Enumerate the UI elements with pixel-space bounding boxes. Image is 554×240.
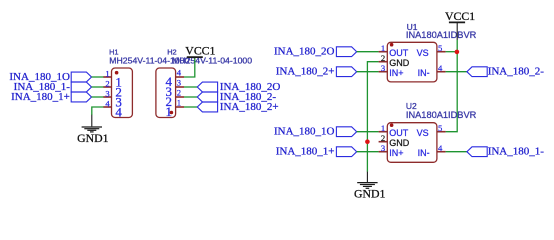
port INA_180_1+ (U2) [276,146,357,158]
ground GND1 right [354,172,386,201]
H2 pin 2 [166,88,185,109]
H2 pin 1 [166,98,185,119]
svg-text:VCC1: VCC1 [185,44,215,58]
connector H2 [156,68,176,118]
svg-text:IN-: IN- [418,148,430,158]
U1 pin 1 OUT [379,43,409,58]
svg-text:INA_180_2O: INA_180_2O [274,46,335,58]
wire [184,58,195,77]
port INA_180_1O [9,71,91,83]
svg-text:INA_180_2+: INA_180_2+ [220,101,279,113]
svg-text:4: 4 [438,143,443,153]
port INA_180_2+ (U1) [276,66,357,78]
svg-text:1: 1 [381,123,385,133]
svg-text:INA_180_2+: INA_180_2+ [276,66,335,78]
svg-text:VS: VS [417,128,429,138]
svg-text:4: 4 [438,63,443,73]
wire [357,151,379,153]
H1 pin 4 [103,98,122,119]
port INA_180_2+ (H2) [197,101,278,113]
U2 pin 1 OUT [379,123,409,138]
H2 pin 3 [166,78,185,99]
svg-text:OUT: OUT [389,128,409,138]
svg-text:1: 1 [177,98,181,108]
svg-text:1: 1 [381,43,385,53]
wire [357,131,379,133]
wire [446,71,467,73]
svg-text:VCC1: VCC1 [445,9,475,23]
svg-text:5: 5 [438,123,442,133]
H2 pin-1 marker dot [170,111,174,115]
svg-text:2: 2 [177,88,181,98]
U1 pin 3 IN+ [379,63,404,78]
svg-text:GND1: GND1 [354,187,386,201]
svg-text:3: 3 [105,88,109,98]
svg-text:2: 2 [105,78,109,88]
H1 pin 2 [103,78,122,99]
svg-text:1: 1 [166,104,173,119]
svg-text:INA180A1IDBVR: INA180A1IDBVR [406,110,477,120]
svg-text:3: 3 [381,63,385,73]
svg-text:1: 1 [105,68,109,78]
svg-text:IN+: IN+ [389,68,403,78]
wire VCC vertical [446,40,458,132]
wire [92,86,104,88]
port INA_180_1- [14,81,92,93]
ground GND1 left [77,115,109,145]
svg-text:INA_180_2-: INA_180_2- [488,66,545,78]
svg-text:5: 5 [438,43,442,53]
svg-text:INA_180_1+: INA_180_1+ [11,91,70,103]
wire [446,151,467,153]
op-amp U1 INA180A1IDBVR [387,42,437,82]
svg-text:GND: GND [389,138,410,148]
port INA_180_1- (U2 right) [467,146,544,158]
svg-text:INA_180_1-: INA_180_1- [488,146,545,158]
wire VS to junction [446,51,458,53]
U1 pin-1 marker dot [390,43,394,47]
U1 pin 5 VS [417,43,446,58]
wire [357,51,379,53]
svg-text:OUT: OUT [389,48,409,58]
connector H1 [112,68,133,118]
power VCC1 (H2) [185,44,215,59]
U2 pin 2 GND [379,133,410,148]
H1 pin 1 [103,68,122,89]
wire [92,96,104,98]
svg-text:4: 4 [177,68,182,78]
wire [92,76,104,78]
wire [184,96,198,98]
wire [92,107,104,115]
port INA_180_2O (U1) [274,46,357,58]
wire [184,106,198,108]
svg-text:2: 2 [381,133,385,143]
svg-text:3: 3 [177,78,181,88]
junction at VS/VCC [455,50,460,55]
U2 pin 3 IN+ [379,143,404,158]
svg-text:IN-: IN- [418,68,430,78]
port INA_180_2O (H2) [197,81,280,93]
power VCC1 (top) [445,9,475,40]
H1 pin 3 [103,88,122,109]
U2 pin-1 marker dot [390,123,394,127]
H2 pin 4 [166,68,185,89]
svg-text:4: 4 [105,98,110,108]
U2 pin 4 IN- [418,143,446,158]
wire GND net vertical [367,62,378,172]
svg-text:VS: VS [417,48,429,58]
U1 pin 2 GND [379,53,410,68]
svg-text:2: 2 [381,53,385,63]
svg-text:INA_180_1+: INA_180_1+ [276,146,335,158]
wire [184,86,198,88]
U1 pin 4 IN- [418,63,446,78]
port INA_180_2- (U1 right) [467,66,544,78]
port INA_180_1O (U2) [274,126,357,138]
svg-text:GND1: GND1 [77,131,109,145]
svg-text:3: 3 [381,143,385,153]
svg-text:IN+: IN+ [389,148,403,158]
svg-text:INA180A1IDBVR: INA180A1IDBVR [406,30,477,40]
svg-text:4: 4 [115,104,122,119]
H1 pin-1 marker dot [115,71,119,75]
op-amp U2 INA180A1IDBVR [387,123,437,163]
port INA_180_2- (H2) [197,91,276,103]
wire [357,71,379,73]
port INA_180_1+ [11,91,91,103]
svg-text:GND: GND [389,58,410,68]
U2 pin 5 VS [417,123,446,138]
junction at U2 GND [365,139,370,144]
svg-text:INA_180_1O: INA_180_1O [274,126,335,138]
